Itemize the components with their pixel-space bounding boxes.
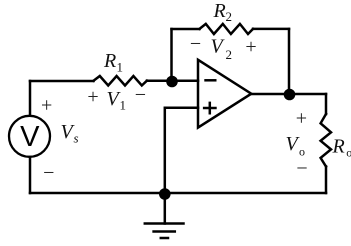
- svg-text:−: −: [296, 158, 307, 180]
- wire ground stem: [164, 193, 167, 224]
- wire right vertical top: [325, 94, 328, 114]
- wire top-left to R1: [30, 80, 94, 83]
- svg-text:R: R: [332, 135, 345, 157]
- node A dot (inverting input): [166, 76, 178, 88]
- svg-text:−: −: [135, 84, 146, 106]
- op-amp plus marker: [203, 102, 217, 115]
- svg-text:1: 1: [120, 98, 127, 113]
- svg-text:2: 2: [226, 9, 233, 24]
- source V circle: [9, 116, 50, 157]
- resistor R2: [200, 24, 254, 34]
- svg-text:R: R: [103, 50, 116, 72]
- svg-text:+: +: [296, 107, 307, 129]
- svg-text:o: o: [299, 144, 305, 158]
- wire node A vertical: [170, 29, 173, 81]
- svg-text:−: −: [190, 33, 201, 55]
- wire op-amp output: [251, 93, 326, 96]
- svg-text:R: R: [213, 0, 226, 22]
- node output dot: [284, 89, 296, 101]
- svg-text:−: −: [43, 162, 54, 184]
- wire op-amp plus input: [165, 108, 198, 193]
- wire bottom: [30, 192, 326, 195]
- svg-text:+: +: [245, 36, 256, 58]
- op-amp U1: [198, 60, 251, 128]
- ground: [145, 224, 184, 239]
- wire feedback top left: [172, 28, 200, 31]
- wire R1 to op-amp minus input: [147, 79, 198, 82]
- svg-text:s: s: [74, 131, 79, 146]
- resistor Ro: [321, 114, 331, 167]
- wire left vertical top: [29, 81, 32, 115]
- svg-text:1: 1: [117, 60, 124, 75]
- svg-text:o: o: [346, 146, 351, 160]
- svg-text:V: V: [20, 121, 40, 153]
- wire feedback right vertical: [288, 29, 291, 94]
- wire feedback top right: [253, 28, 289, 31]
- svg-text:+: +: [41, 95, 52, 117]
- op-amp minus marker: [204, 79, 216, 82]
- node ground dot: [159, 188, 171, 200]
- svg-text:2: 2: [226, 47, 233, 62]
- svg-text:+: +: [87, 86, 98, 108]
- resistor R1: [94, 76, 147, 86]
- wire right vertical bottom: [325, 167, 328, 194]
- wire left vertical bottom: [29, 157, 32, 193]
